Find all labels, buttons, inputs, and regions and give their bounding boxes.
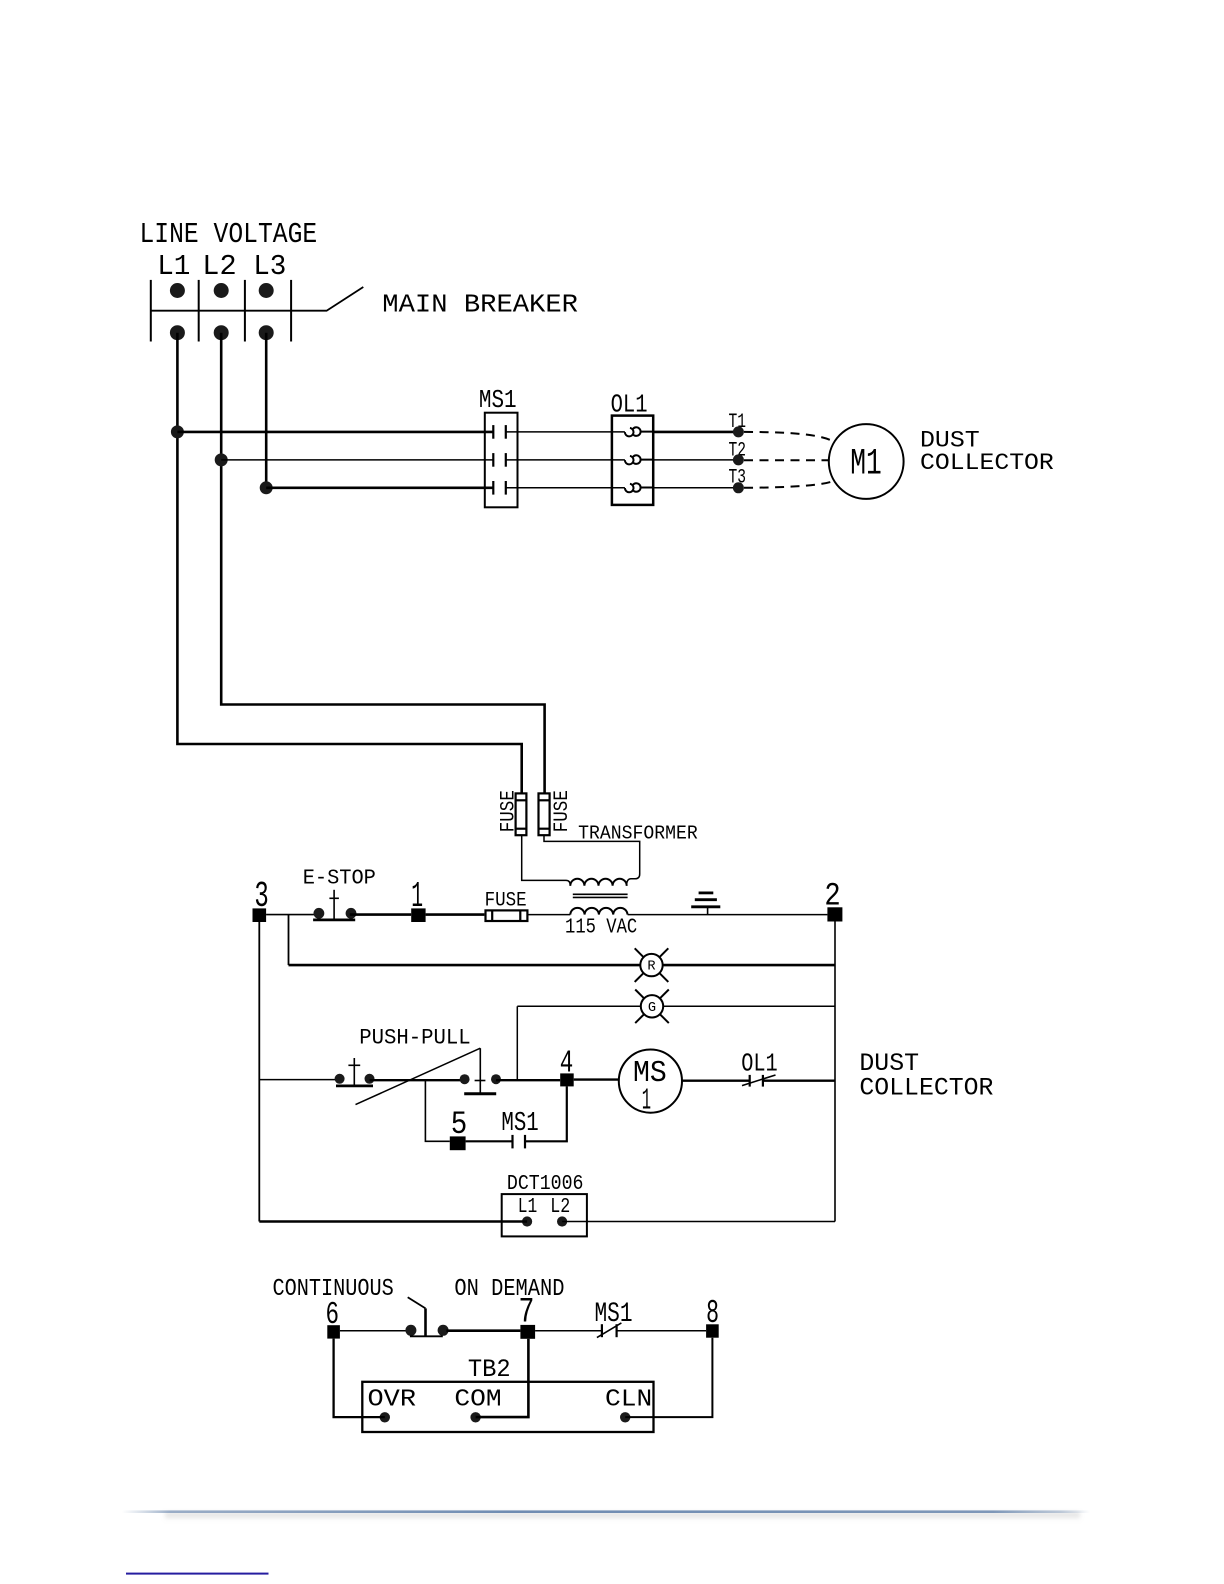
footer divider shadow: [165, 1513, 1080, 1521]
fuse F3 control: [486, 910, 528, 921]
wire left branch down to R: [288, 915, 290, 966]
svg-text:MS1: MS1: [595, 1299, 633, 1330]
svg-text:OL1: OL1: [741, 1048, 778, 1078]
terminal 3: [253, 908, 267, 922]
wire T2: [653, 459, 739, 461]
node T3: [733, 482, 744, 493]
transformer secondary coil: [570, 908, 627, 915]
wire left bus down from 3: [258, 922, 260, 1222]
selector switch contacts: [405, 1297, 448, 1336]
terminal 8: [706, 1324, 719, 1337]
junction node L1: [171, 425, 184, 438]
svg-text:FUSE: FUSE: [551, 790, 574, 832]
box DCT1006: [502, 1194, 587, 1236]
coil MS1 circle: [619, 1050, 682, 1113]
wire fuse F1 to primary: [522, 835, 571, 886]
svg-text:FUSE: FUSE: [498, 790, 521, 832]
svg-text:M1: M1: [850, 443, 882, 484]
svg-text:G: G: [648, 1001, 656, 1016]
ground symbol: [691, 893, 720, 915]
node T1: [733, 426, 744, 437]
svg-text:1: 1: [642, 1084, 651, 1118]
wire phase3 to MS1: [266, 486, 493, 489]
push-pull NO contact: [460, 1048, 501, 1094]
terminal 4: [560, 1073, 574, 1086]
wire terminal 4 to coil: [574, 1078, 619, 1080]
dashed lead T3 to motor: [744, 481, 834, 488]
svg-text:LINE VOLTAGE: LINE VOLTAGE: [140, 218, 318, 251]
terminal strip bars: [151, 280, 291, 342]
svg-text:MS1: MS1: [479, 386, 517, 415]
svg-text:MS1: MS1: [501, 1109, 538, 1139]
wire G rung right: [663, 1005, 835, 1007]
wire right bus down from 2: [834, 922, 836, 1222]
terminal 2: [827, 907, 842, 921]
contactor MS1 contacts: [493, 425, 506, 495]
terminal dots L1 L2 L3 top row: [170, 283, 274, 298]
svg-text:ON DEMAND: ON DEMAND: [454, 1276, 564, 1303]
wire push-pull to terminal 4: [496, 1079, 560, 1081]
transformer core: [573, 894, 628, 897]
svg-text:DCT1006: DCT1006: [507, 1171, 584, 1196]
wire L3 drop: [265, 333, 268, 488]
svg-text:OVR: OVR: [368, 1387, 417, 1414]
wire L1 drop to fuse: [177, 333, 521, 794]
junction node L3: [260, 481, 273, 494]
svg-text:COLLECTOR: COLLECTOR: [920, 451, 1054, 477]
box TB2: [362, 1382, 653, 1432]
overload OL1 box: [612, 416, 653, 505]
svg-text:R: R: [647, 960, 655, 975]
svg-text:COM: COM: [454, 1387, 501, 1414]
contact OL1 NC: [742, 1075, 776, 1087]
svg-text:MAIN BREAKER: MAIN BREAKER: [382, 291, 578, 320]
wire branch down to 5: [425, 1080, 449, 1141]
terminal 7: [520, 1325, 535, 1339]
wire phase2 MS1 to OL1: [506, 459, 625, 461]
wire R rung left: [289, 964, 641, 967]
wire coil to OL1 contact: [682, 1079, 750, 1081]
svg-text:E-STOP: E-STOP: [303, 866, 376, 891]
wire terminal 5 to MS1 contact: [466, 1140, 513, 1142]
contact MS1 NC bottom: [597, 1323, 622, 1338]
overload heater phase3: [625, 483, 653, 492]
svg-text:L1: L1: [518, 1194, 538, 1219]
wire L2 to right bus: [562, 1221, 835, 1223]
wire rail 3 to E-STOP: [266, 914, 318, 916]
wire terminal 1 to fuse: [426, 913, 485, 916]
pilot light R: [635, 948, 669, 982]
wire rung to push-pull: [259, 1079, 339, 1081]
wire T1: [653, 431, 739, 434]
wire MS1 contact to terminal 8: [617, 1330, 707, 1332]
wire G tap down: [516, 1006, 518, 1079]
footer link underline: [126, 1573, 269, 1575]
svg-text:115 VAC: 115 VAC: [565, 917, 637, 940]
svg-text:L1: L1: [157, 250, 190, 283]
transformer T1 primary coil: [570, 879, 626, 886]
wire T3: [653, 487, 739, 489]
wire phase2 to MS1: [221, 459, 493, 461]
wire R rung right: [663, 964, 835, 967]
svg-text:TB2: TB2: [468, 1357, 511, 1384]
wire fuse F2 to primary: [544, 835, 640, 886]
svg-text:L3: L3: [253, 250, 286, 283]
push-pull NC contact: [335, 1058, 375, 1086]
wire between push-pull contacts: [370, 1079, 465, 1081]
wire E-STOP to terminal 1: [350, 913, 411, 916]
junction node L2: [215, 453, 228, 466]
node COM: [470, 1412, 480, 1422]
node L1 (DCT1006): [522, 1216, 532, 1226]
node L2 (DCT1006): [557, 1216, 567, 1226]
terminal 6: [327, 1325, 340, 1338]
wire left bus to L1: [259, 1220, 527, 1223]
wire terminal 7 to COM: [476, 1339, 529, 1417]
wire MS1 contact to terminal 4: [525, 1086, 567, 1141]
wire terminal 6 to selector: [340, 1330, 412, 1332]
wire L2 drop to fuse: [221, 333, 544, 794]
terminal 1: [411, 908, 425, 922]
terminal dots L1 L2 L3 bottom row: [170, 325, 274, 340]
wire G rung left: [517, 1005, 641, 1007]
push-pull linkage diagonal: [356, 1048, 481, 1104]
wire terminal 7 to MS1 contact: [535, 1330, 602, 1332]
terminal 5: [450, 1136, 466, 1150]
fuse F2 vertical: [539, 793, 550, 835]
node CLN: [620, 1412, 630, 1422]
dashed lead T1 to motor: [744, 432, 834, 442]
wire phase3 MS1 to OL1: [506, 487, 625, 489]
main breaker lever: [151, 287, 363, 311]
svg-text:COLLECTOR: COLLECTOR: [859, 1074, 993, 1102]
node T2: [733, 454, 744, 465]
wire secondary to terminal 2: [628, 914, 828, 916]
svg-text:CLN: CLN: [605, 1387, 652, 1414]
fuse F1 vertical: [516, 793, 527, 835]
svg-text:L2: L2: [550, 1194, 570, 1219]
svg-text:PUSH-PULL: PUSH-PULL: [359, 1025, 471, 1050]
node OVR: [380, 1412, 390, 1422]
wire fuse to secondary: [528, 914, 571, 916]
motor M1 circle: [829, 424, 904, 499]
dashed lead T2 to motor: [744, 459, 829, 461]
wire terminal 8 to CLN: [625, 1338, 712, 1417]
contact MS1 NO: [513, 1135, 526, 1149]
contactor MS1 box: [485, 413, 518, 508]
wire OL1 contact to right bus: [763, 1079, 835, 1081]
svg-text:FUSE: FUSE: [485, 889, 527, 912]
wire phase1 MS1 to OL1: [506, 431, 625, 433]
wire terminal 6 to OVR: [334, 1339, 385, 1418]
overload heater phase2: [625, 455, 653, 464]
wire phase1 to MS1: [177, 431, 493, 434]
wire selector to terminal 7: [446, 1329, 520, 1332]
svg-text:L2: L2: [202, 250, 236, 283]
overload heater phase1: [625, 427, 653, 436]
footer divider blue line: [122, 1510, 1090, 1513]
pilot light G: [635, 990, 669, 1024]
pushbutton E-STOP (NC): [313, 890, 356, 920]
